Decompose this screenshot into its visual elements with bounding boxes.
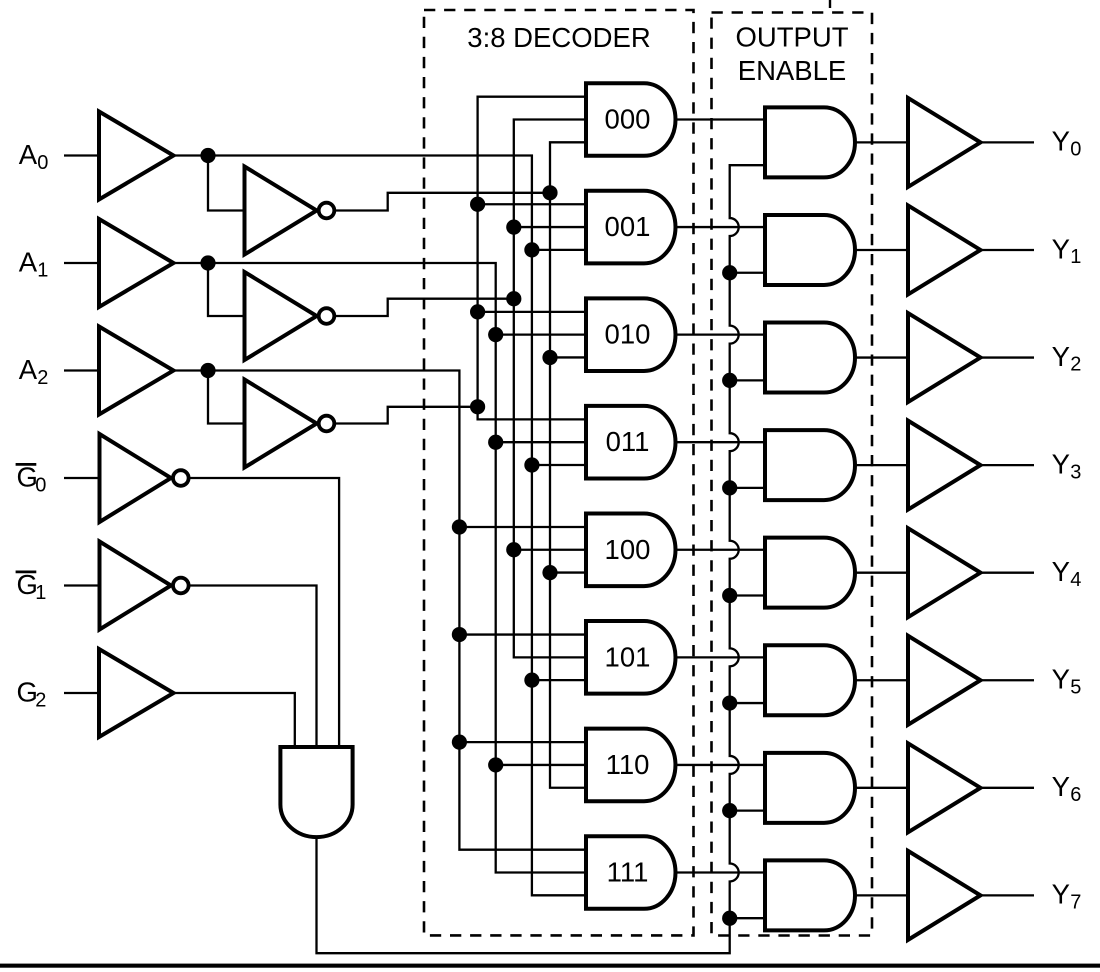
svg-text:3:8 DECODER: 3:8 DECODER <box>467 22 650 53</box>
inverter A0 bubble <box>319 203 335 219</box>
bus A2 complement net <box>478 97 586 420</box>
wire Y7 output <box>980 894 1034 896</box>
junction enable at OE gate 4 <box>722 588 737 603</box>
svg-text:100: 100 <box>605 534 651 565</box>
junction A0 complement entry <box>542 185 557 200</box>
junction enable at OE gate 6 <box>722 803 737 818</box>
wire G0 to enable AND <box>188 478 339 747</box>
wire bus A2 stub y=634 <box>459 633 586 635</box>
wire G1 input <box>64 584 100 586</box>
svg-text:Y: Y <box>1052 448 1070 479</box>
wire bus A0n stub y=357 <box>550 356 586 358</box>
wire decoder 001 output <box>676 226 766 228</box>
junction enable at OE gate 1 <box>722 265 737 280</box>
decoder AND gate 001 <box>586 191 676 264</box>
junction bus A0 y=680 <box>524 673 539 688</box>
wire branch to inverter A0 <box>208 156 245 211</box>
wire decoder 011 output <box>676 441 766 443</box>
junction A2 complement entry <box>470 399 485 414</box>
junction bus A2 y=634 <box>452 627 467 642</box>
wire enable stub to OE gate 6 <box>730 809 765 811</box>
overbar on G1 <box>16 571 37 574</box>
decoder AND gate 010 <box>586 298 675 371</box>
junction enable at OE gate 5 <box>722 695 737 710</box>
bottom border line <box>0 964 1100 968</box>
junction A2 <box>200 363 215 378</box>
svg-text:Y: Y <box>1052 126 1070 157</box>
wire decoder 100 output <box>676 549 766 551</box>
output-enable AND gate Y5 <box>765 645 855 715</box>
svg-text:7: 7 <box>1070 892 1081 914</box>
junction bus A0n y=357 <box>542 350 557 365</box>
inverter G1 NOT <box>100 542 172 630</box>
svg-text:Y: Y <box>1052 341 1070 372</box>
wire decoder 111 output <box>676 871 766 873</box>
wire bus A2 stub y=526 <box>459 526 586 528</box>
inverter A0 NOT <box>245 167 317 255</box>
inverter A1 bubble <box>319 308 335 324</box>
svg-text:A: A <box>19 139 38 170</box>
wire Y0 output <box>980 141 1034 143</box>
svg-text:011: 011 <box>606 426 650 457</box>
wire Y5 output <box>980 679 1034 681</box>
wire bus A0 stub y=465 <box>532 464 586 466</box>
svg-text:0: 0 <box>1070 139 1081 161</box>
junction bus A1 y=334 <box>488 327 503 342</box>
wire bus A2n stub y=204 <box>478 203 586 205</box>
wire bus A2 stub y=742 <box>459 741 586 743</box>
svg-text:0: 0 <box>37 152 48 174</box>
wire G1 to enable AND <box>188 586 317 747</box>
inverter A2 NOT <box>245 380 317 468</box>
junction bus A2n y=204 <box>470 197 485 212</box>
svg-text:Y: Y <box>1052 556 1070 587</box>
wire OE Y2 output <box>855 356 908 358</box>
decoder AND gate 101 <box>586 621 676 694</box>
junction bus A2 y=526 <box>452 519 467 534</box>
junction bus A0 y=465 <box>524 457 539 472</box>
svg-text:A: A <box>19 246 38 277</box>
wire enable stub to OE gate 2 <box>730 379 765 381</box>
wire bus A0 stub y=249 <box>532 249 586 251</box>
output-enable AND gate Y7 <box>765 860 855 930</box>
svg-text:2: 2 <box>37 367 48 389</box>
wire enable stub to OE gate 3 <box>730 487 765 489</box>
decoder AND gate 000 <box>586 83 675 156</box>
wire/bus A2 true net <box>174 371 587 850</box>
output-enable AND gate Y6 <box>765 753 855 823</box>
junction bus A1n y=227 <box>506 219 521 234</box>
output buffer Y7 <box>908 851 981 940</box>
wire G0 input <box>64 477 100 479</box>
decoder AND gate 011 <box>586 406 675 479</box>
junction A0 <box>200 148 215 163</box>
wire A2 input <box>64 369 100 371</box>
svg-text:Y: Y <box>1052 664 1070 695</box>
buffer A0 <box>99 112 174 200</box>
inverter G0 NOT <box>100 434 172 522</box>
bus A1 complement net <box>514 120 586 658</box>
overbar on G0 <box>16 463 37 466</box>
wire OE Y5 output <box>855 679 908 681</box>
buffer A1 <box>99 219 174 307</box>
wire decoder 101 output <box>676 656 766 658</box>
svg-text:001: 001 <box>605 211 651 242</box>
junction bus A1 y=442 <box>488 435 503 450</box>
svg-text:6: 6 <box>1070 784 1081 806</box>
svg-text:Y: Y <box>1052 233 1070 264</box>
wire bus A1 stub y=334 <box>496 333 586 335</box>
wire OE Y6 output <box>855 787 908 789</box>
top tick (cropped wire above) <box>829 0 831 8</box>
wire Y1 output <box>980 249 1034 251</box>
output buffer Y6 <box>908 743 981 832</box>
inverter G1 bubble <box>173 578 189 594</box>
svg-text:101: 101 <box>605 641 651 672</box>
output-enable AND gate Y2 <box>765 323 855 393</box>
wire bus A0 stub y=680 <box>532 679 586 681</box>
junction enable at OE gate 3 <box>722 480 737 495</box>
junction A1 complement entry <box>506 291 521 306</box>
svg-text:ENABLE: ENABLE <box>738 55 847 86</box>
wire bus A2n stub y=311 <box>478 311 586 313</box>
wire G2 input <box>64 692 100 694</box>
wire OE Y3 output <box>855 464 908 466</box>
output buffer Y3 <box>908 421 981 510</box>
wire branch to inverter A1 <box>208 263 245 316</box>
wire decoder 010 output <box>676 333 766 335</box>
junction bus A2 y=742 <box>452 735 467 750</box>
wire bus A1 stub y=442 <box>496 441 586 443</box>
svg-text:3: 3 <box>1070 461 1081 483</box>
wire inverter A0 output entry <box>334 193 550 211</box>
wire Y3 output <box>980 464 1034 466</box>
buffer G2 <box>99 649 174 737</box>
junction bus A0n y=572 <box>542 565 557 580</box>
junction A1 <box>200 255 215 270</box>
output buffer Y2 <box>908 313 981 402</box>
svg-text:4: 4 <box>1070 569 1081 591</box>
svg-text:000: 000 <box>605 104 651 135</box>
wire Y2 output <box>980 356 1034 358</box>
wire/bus A1 true net <box>174 263 587 872</box>
wire Y6 output <box>980 787 1034 789</box>
junction bus A1n y=549 <box>506 542 521 557</box>
wire A1 input <box>64 262 100 264</box>
svg-text:010: 010 <box>605 319 651 350</box>
wire bus A1n stub y=227 <box>514 226 586 228</box>
wire enable stub to OE gate 1 <box>730 272 765 274</box>
inverter A1 NOT <box>245 272 317 360</box>
junction bus A2n y=311 <box>470 304 485 319</box>
svg-text:1: 1 <box>37 259 48 281</box>
output buffer Y0 <box>908 98 981 187</box>
wire inverter A1 output entry <box>334 299 514 316</box>
wire G2 to enable AND <box>174 693 295 747</box>
buffer A2 <box>99 327 174 415</box>
wire decoder 110 output <box>676 764 766 766</box>
output-enable AND gate Y1 <box>765 215 855 285</box>
svg-text:1: 1 <box>1070 246 1081 268</box>
output buffer Y4 <box>908 528 981 617</box>
wire OE Y4 output <box>855 572 908 574</box>
wire enable stub to OE gate 5 <box>730 702 765 704</box>
wire A0 input <box>64 154 100 156</box>
output-enable AND gate Y4 <box>765 538 855 608</box>
svg-text:Y: Y <box>1052 879 1070 910</box>
wire inverter A2 output entry <box>334 407 478 424</box>
output-enable AND gate Y3 <box>765 430 855 500</box>
junction bus A0 y=249 <box>524 242 539 257</box>
svg-text:2: 2 <box>35 689 46 711</box>
svg-text:1: 1 <box>35 582 46 604</box>
svg-text:A: A <box>19 354 38 385</box>
wire bus A1n stub y=549 <box>514 549 586 551</box>
wire Y4 output <box>980 572 1034 574</box>
dashed box OUTPUT ENABLE <box>712 13 873 936</box>
output buffer Y5 <box>908 636 981 725</box>
inverter A2 bubble <box>319 416 335 432</box>
output-enable AND gate Y0 <box>765 107 855 177</box>
wire/bus A0 true net <box>174 156 587 896</box>
wire bus A0n stub y=572 <box>550 571 586 573</box>
svg-text:110: 110 <box>606 749 650 780</box>
svg-text:111: 111 <box>607 856 649 887</box>
dashed box 3:8 DECODER <box>424 10 694 935</box>
junction enable at OE gate 7 <box>722 911 737 926</box>
decoder AND gate 100 <box>586 513 676 586</box>
wire enable stub to OE gate 4 <box>730 594 765 596</box>
svg-text:OUTPUT: OUTPUT <box>735 22 848 53</box>
decoder AND gate 111 <box>586 836 676 909</box>
inverter G0 bubble <box>173 470 189 486</box>
wire enable net (AND output to OE gates, with hops) <box>317 165 766 953</box>
junction enable at OE gate 2 <box>722 373 737 388</box>
svg-text:0: 0 <box>35 474 46 496</box>
wire branch to inverter A2 <box>208 371 245 424</box>
wire OE Y1 output <box>855 249 908 251</box>
wire OE Y0 output <box>855 141 908 143</box>
wire OE Y7 output <box>855 894 908 896</box>
wire decoder 000 output <box>676 118 766 120</box>
wire bus A1 stub y=764 <box>496 764 586 766</box>
enable AND gate (G0·G1·G2) <box>280 747 352 837</box>
decoder AND gate 110 <box>586 729 675 802</box>
bus A0 complement net <box>550 142 586 787</box>
svg-text:5: 5 <box>1070 676 1081 698</box>
svg-text:Y: Y <box>1052 771 1070 802</box>
output buffer Y1 <box>908 205 981 294</box>
junction bus A1 y=764 <box>488 757 503 772</box>
wire enable stub to OE gate 7 <box>730 917 765 919</box>
svg-text:2: 2 <box>1070 354 1081 376</box>
